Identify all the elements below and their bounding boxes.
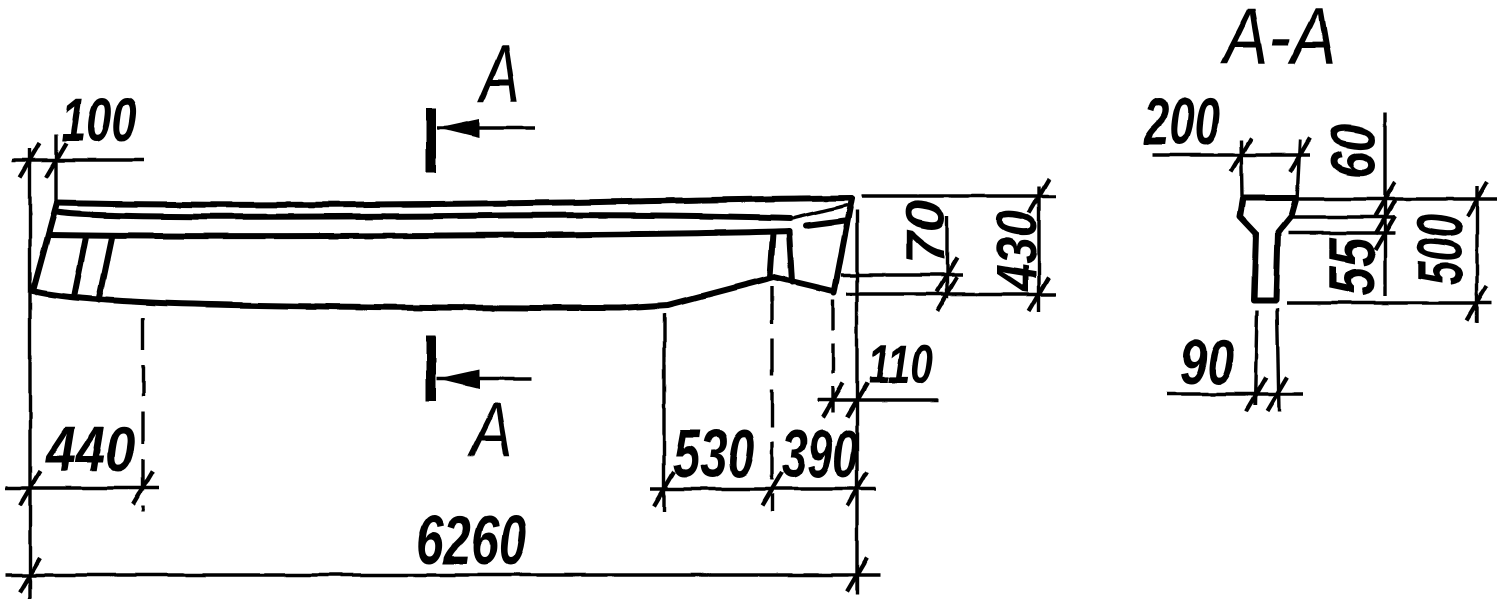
extension line left main (28, 148, 31, 599)
extension line dashed at beam right bottom corner (831, 300, 834, 412)
tick 110 left (823, 383, 843, 417)
tick 55 bottom (1375, 216, 1395, 250)
tick 70 top (937, 258, 957, 292)
svg-text:6260: 6260 (416, 501, 527, 579)
tick 200 right (1290, 138, 1310, 172)
section mark lower arrow (437, 377, 531, 380)
dim line 60 55 vertical (1383, 112, 1386, 296)
beam web taper right line (789, 231, 792, 282)
tick 530 right (762, 472, 782, 506)
extension line 530/390 middle dashed (770, 286, 773, 512)
beam web taper left line (770, 233, 773, 277)
svg-text:A-A: A-A (1219, 0, 1336, 81)
tick 390 right (847, 472, 867, 506)
extension line web bottom level (1287, 301, 1492, 304)
tick 70 bottom (937, 277, 957, 311)
dim line 70 vertical (945, 216, 948, 298)
beam bottom edge (33, 277, 774, 308)
svg-text:440: 440 (45, 415, 135, 485)
dim line 500 vertical (1475, 186, 1478, 323)
extension line 200 right (1297, 140, 1300, 200)
beam third line (49, 231, 789, 236)
tick 430 top (1029, 179, 1049, 213)
svg-text:110: 110 (868, 334, 933, 395)
tick 500 bottom (1467, 286, 1487, 320)
svg-text:A: A (467, 387, 513, 472)
tick 430 bottom (1029, 277, 1049, 311)
svg-text:500: 500 (1404, 214, 1476, 285)
beam flange underside end piece (790, 205, 848, 219)
svg-text:60: 60 (1318, 124, 1390, 179)
beam bottom edge right drop (774, 277, 833, 291)
tick 200 left (1231, 138, 1251, 172)
svg-text:430: 430 (985, 210, 1049, 292)
extension line 440 dashed (141, 318, 144, 512)
extension line right main (855, 210, 858, 595)
svg-text:200: 200 (1143, 86, 1220, 159)
extension line 70 top level (841, 273, 963, 276)
tick 500 top (1467, 182, 1487, 216)
dim line 6260 (6, 573, 880, 576)
extension line 100 right (54, 134, 57, 207)
beam left end stiffener line 2 (99, 238, 112, 300)
beam flange underside line (57, 212, 790, 218)
dim line 100 (12, 158, 144, 161)
beam right slant edge (834, 198, 852, 293)
tick 6260 left (20, 558, 40, 592)
dim line 440 (6, 486, 159, 489)
tick 440 left (20, 471, 40, 505)
svg-text:70: 70 (894, 200, 955, 264)
extension line section top level (1296, 197, 1497, 200)
extension line taper bottom level (1288, 231, 1395, 234)
tick 110 right (847, 383, 867, 417)
section mark upper arrow (437, 126, 535, 129)
extension line 90 right below web (1277, 308, 1279, 412)
svg-text:100: 100 (61, 85, 137, 155)
tick 530 left (654, 472, 674, 506)
extension line 90 left below web (1255, 310, 1257, 405)
beam left slant edge (33, 203, 57, 291)
dim line 90 (1167, 392, 1303, 395)
tick 90 left (1246, 377, 1266, 411)
section mark lower bar (426, 335, 436, 401)
extension line beam bottom right level (846, 292, 1056, 295)
tick 100 left (20, 143, 40, 177)
tick 100 right (46, 143, 66, 177)
svg-text:90: 90 (1180, 327, 1234, 398)
dim line 530 390 (650, 487, 876, 490)
svg-text:A: A (477, 29, 520, 121)
svg-text:55: 55 (1317, 236, 1388, 296)
extension line flange lip bottom level (1291, 215, 1395, 218)
beam top edge (57, 198, 852, 205)
dim line 430 vertical (1037, 186, 1040, 312)
section mark upper bar (426, 108, 436, 173)
tick 440 right (133, 471, 153, 505)
beam left end stiffener line 1 (74, 237, 86, 297)
svg-text:530: 530 (673, 415, 755, 492)
tick 6260 right (847, 558, 867, 592)
beam end notch thick line (806, 221, 845, 226)
dim line 200 (1152, 153, 1310, 156)
T section outline (1240, 198, 1296, 300)
extension line 530 left (662, 313, 665, 512)
dim line 110 (818, 398, 939, 401)
tick 60 top (1375, 182, 1395, 216)
extension line beam top right (862, 194, 1056, 197)
svg-text:390: 390 (782, 417, 858, 492)
tick 60 bottom (1375, 200, 1395, 234)
extension line 200 left (1241, 140, 1242, 196)
tick 90 right (1267, 377, 1287, 411)
